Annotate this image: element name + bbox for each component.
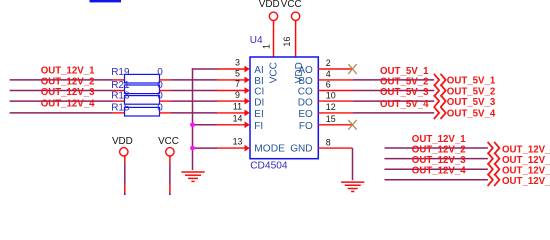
wire OUT_12V_3 (bottom right)	[385, 168, 488, 170]
off-page connector OUT_5V_1	[434, 74, 446, 86]
svg-text:OUT_12V_4: OUT_12V_4	[41, 99, 95, 110]
resistor R19 right pin	[160, 79, 172, 81]
svg-text:OUT_12V_3: OUT_12V_3	[412, 155, 466, 166]
off-page connector OUT_5V_3	[434, 95, 446, 107]
right pin 12 (EO)	[318, 112, 353, 114]
svg-text:OUT_12V_1: OUT_12V_1	[412, 134, 466, 145]
wire OUT_12V_4 from left	[10, 112, 113, 114]
svg-text:14: 14	[233, 114, 243, 124]
resistor R19 body	[125, 74, 160, 83]
wire to pin 7	[171, 90, 217, 92]
svg-text:DO: DO	[298, 97, 313, 108]
svg-text:11: 11	[233, 102, 242, 112]
svg-text:0: 0	[157, 67, 163, 78]
right pin 2 (AO)	[318, 68, 353, 70]
resistor R15 right pin	[160, 112, 172, 114]
ground (left)	[181, 172, 204, 181]
svg-text:OUT_12V_2: OUT_12V_2	[502, 155, 550, 166]
capacitor pin top (cut off, VDD)	[124, 194, 126, 196]
off-page connector OUT_12V_2	[488, 153, 500, 165]
svg-text:FI: FI	[254, 121, 263, 132]
svg-text:R19: R19	[111, 67, 130, 78]
svg-text:VCC: VCC	[269, 62, 280, 83]
svg-text:16: 16	[282, 37, 292, 47]
svg-text:0: 0	[157, 102, 163, 113]
pin 16 wire (VCC)	[295, 21, 297, 57]
off-page connector OUT_12V_4	[488, 174, 500, 186]
top-left partial blue element	[90, 0, 122, 2]
svg-text:9: 9	[235, 90, 240, 100]
junction at FI	[190, 122, 195, 127]
svg-text:CD4504: CD4504	[250, 160, 288, 171]
resistor R21 body	[125, 85, 160, 94]
svg-text:OUT_5V_3: OUT_5V_3	[380, 87, 429, 98]
wire to pin 9	[171, 100, 217, 102]
right pin 10 (DO)	[318, 100, 353, 102]
off-page connector OUT_5V_4	[434, 107, 446, 119]
left pin 3 (AI)	[216, 68, 246, 70]
svg-text:OUT_12V_1: OUT_12V_1	[502, 144, 550, 155]
left pin 7 (CI)	[216, 90, 246, 92]
VCC open terminal circle	[291, 12, 299, 20]
svg-text:OUT_5V_2: OUT_5V_2	[447, 86, 495, 97]
junction at MODE	[190, 146, 195, 151]
svg-text:7: 7	[235, 79, 240, 89]
svg-text:CO: CO	[298, 87, 313, 98]
svg-text:5: 5	[235, 69, 240, 79]
svg-text:VDD: VDD	[112, 136, 133, 147]
svg-text:15: 15	[326, 114, 336, 124]
VCC wire down to capacitor (cut off)	[169, 156, 171, 163]
wire OUT_5V_4	[353, 112, 434, 114]
ground (right)	[341, 182, 364, 191]
svg-text:OUT_5V_1: OUT_5V_1	[447, 76, 496, 87]
svg-text:3: 3	[235, 58, 240, 68]
svg-text:OUT_5V_4: OUT_5V_4	[380, 99, 429, 110]
right pin 6 (CO)	[318, 90, 353, 92]
svg-text:0: 0	[157, 80, 163, 91]
svg-text:12: 12	[326, 102, 336, 112]
wire GND down	[352, 148, 354, 180]
GND pin 8 wire	[318, 147, 352, 149]
vertical net wire (AI/FI/MODE to ground)	[192, 68, 194, 170]
left pin 9 (DI)	[216, 100, 246, 102]
svg-text:OUT_5V_1: OUT_5V_1	[380, 66, 429, 77]
svg-text:GND: GND	[290, 143, 312, 154]
svg-text:FO: FO	[299, 121, 313, 132]
svg-text:OUT_12V_2: OUT_12V_2	[412, 145, 466, 156]
resistor R18 body	[125, 96, 160, 105]
VDD open terminal circle	[269, 12, 277, 20]
left pin 5 (BI)	[216, 79, 246, 81]
svg-text:AI: AI	[254, 65, 263, 76]
svg-text:OUT_12V_2: OUT_12V_2	[41, 76, 95, 87]
svg-text:1: 1	[262, 44, 272, 49]
wire stub to FI pin	[192, 124, 217, 126]
wire stub to AI pin	[192, 68, 217, 70]
resistor R18 right pin	[160, 100, 172, 102]
svg-text:OUT_5V_2: OUT_5V_2	[380, 77, 428, 88]
svg-text:OUT_12V_3: OUT_12V_3	[502, 166, 550, 177]
svg-text:MODE: MODE	[254, 143, 285, 154]
left pin 11 (EI)	[216, 112, 246, 114]
wire to pin 11	[171, 112, 217, 114]
svg-text:R21: R21	[111, 80, 130, 91]
wire stub to MODE pin	[192, 147, 217, 149]
svg-text:BI: BI	[254, 76, 263, 87]
resistor R15 body	[125, 107, 160, 116]
off-page connector OUT_12V_1	[488, 142, 500, 154]
VCC terminal circle (bottom)	[166, 148, 174, 156]
svg-text:OUT_12V_4: OUT_12V_4	[412, 166, 466, 177]
svg-text:2: 2	[326, 58, 331, 68]
IC U4 CD4504 body	[250, 57, 318, 159]
svg-text:OUT_12V_3: OUT_12V_3	[41, 87, 95, 98]
svg-text:VCC: VCC	[158, 136, 179, 147]
VDD wire down to capacitor (cut off)	[124, 156, 126, 163]
wire OUT_12V_1 (bottom right)	[385, 147, 488, 149]
resistor R21 right pin	[160, 90, 172, 92]
svg-text:6: 6	[326, 80, 331, 90]
left pin 14 (FI)	[216, 124, 246, 126]
off-page connector OUT_5V_2	[434, 84, 446, 96]
no-connect X on FO	[348, 120, 356, 130]
resistor R15 left pin	[113, 112, 125, 114]
resistor R21 left pin	[113, 90, 125, 92]
VDD terminal circle (bottom)	[120, 148, 128, 156]
svg-text:OUT_5V_3: OUT_5V_3	[447, 97, 496, 108]
svg-text:OUT_5V_4: OUT_5V_4	[447, 109, 496, 120]
svg-text:0: 0	[157, 91, 163, 102]
svg-text:DI: DI	[254, 97, 264, 108]
svg-text:CI: CI	[254, 87, 264, 98]
resistor R18 left pin	[113, 100, 125, 102]
svg-text:VDD: VDD	[294, 62, 305, 83]
wire OUT_12V_1 from left	[10, 79, 113, 81]
svg-text:4: 4	[326, 69, 331, 79]
svg-text:U4: U4	[250, 35, 263, 46]
no-connect X on AO	[348, 64, 356, 74]
svg-text:13: 13	[233, 137, 243, 147]
svg-text:EO: EO	[298, 109, 313, 120]
right pin 15 (FO)	[318, 124, 353, 126]
wire OUT_5V_2	[353, 90, 434, 92]
pin 1 wire (VDD)	[273, 21, 275, 57]
wire OUT_12V_4 (bottom right)	[385, 179, 488, 181]
off-page connector OUT_12V_3	[488, 163, 500, 175]
svg-text:VCC: VCC	[281, 0, 302, 10]
svg-text:OUT_12V_4: OUT_12V_4	[502, 176, 550, 187]
wire OUT_5V_3	[353, 100, 434, 102]
svg-text:R18: R18	[111, 91, 130, 102]
capacitor pin top (cut off, VCC)	[169, 194, 171, 196]
svg-text:8: 8	[326, 137, 331, 147]
wire to pin 5	[171, 79, 217, 81]
svg-text:10: 10	[326, 90, 336, 100]
svg-text:EI: EI	[254, 109, 263, 120]
resistor R19 left pin	[113, 79, 125, 81]
wire OUT_12V_2 from left	[10, 90, 113, 92]
svg-text:OUT_12V_1: OUT_12V_1	[41, 66, 95, 77]
MODE pin 13	[216, 147, 246, 149]
svg-text:VDD: VDD	[259, 0, 280, 10]
wire OUT_5V_1	[353, 79, 434, 81]
right pin 4 (BO)	[318, 79, 353, 81]
wire OUT_12V_2 (bottom right)	[385, 158, 488, 160]
svg-text:R15: R15	[111, 102, 130, 113]
wire OUT_12V_3 from left	[10, 100, 113, 102]
